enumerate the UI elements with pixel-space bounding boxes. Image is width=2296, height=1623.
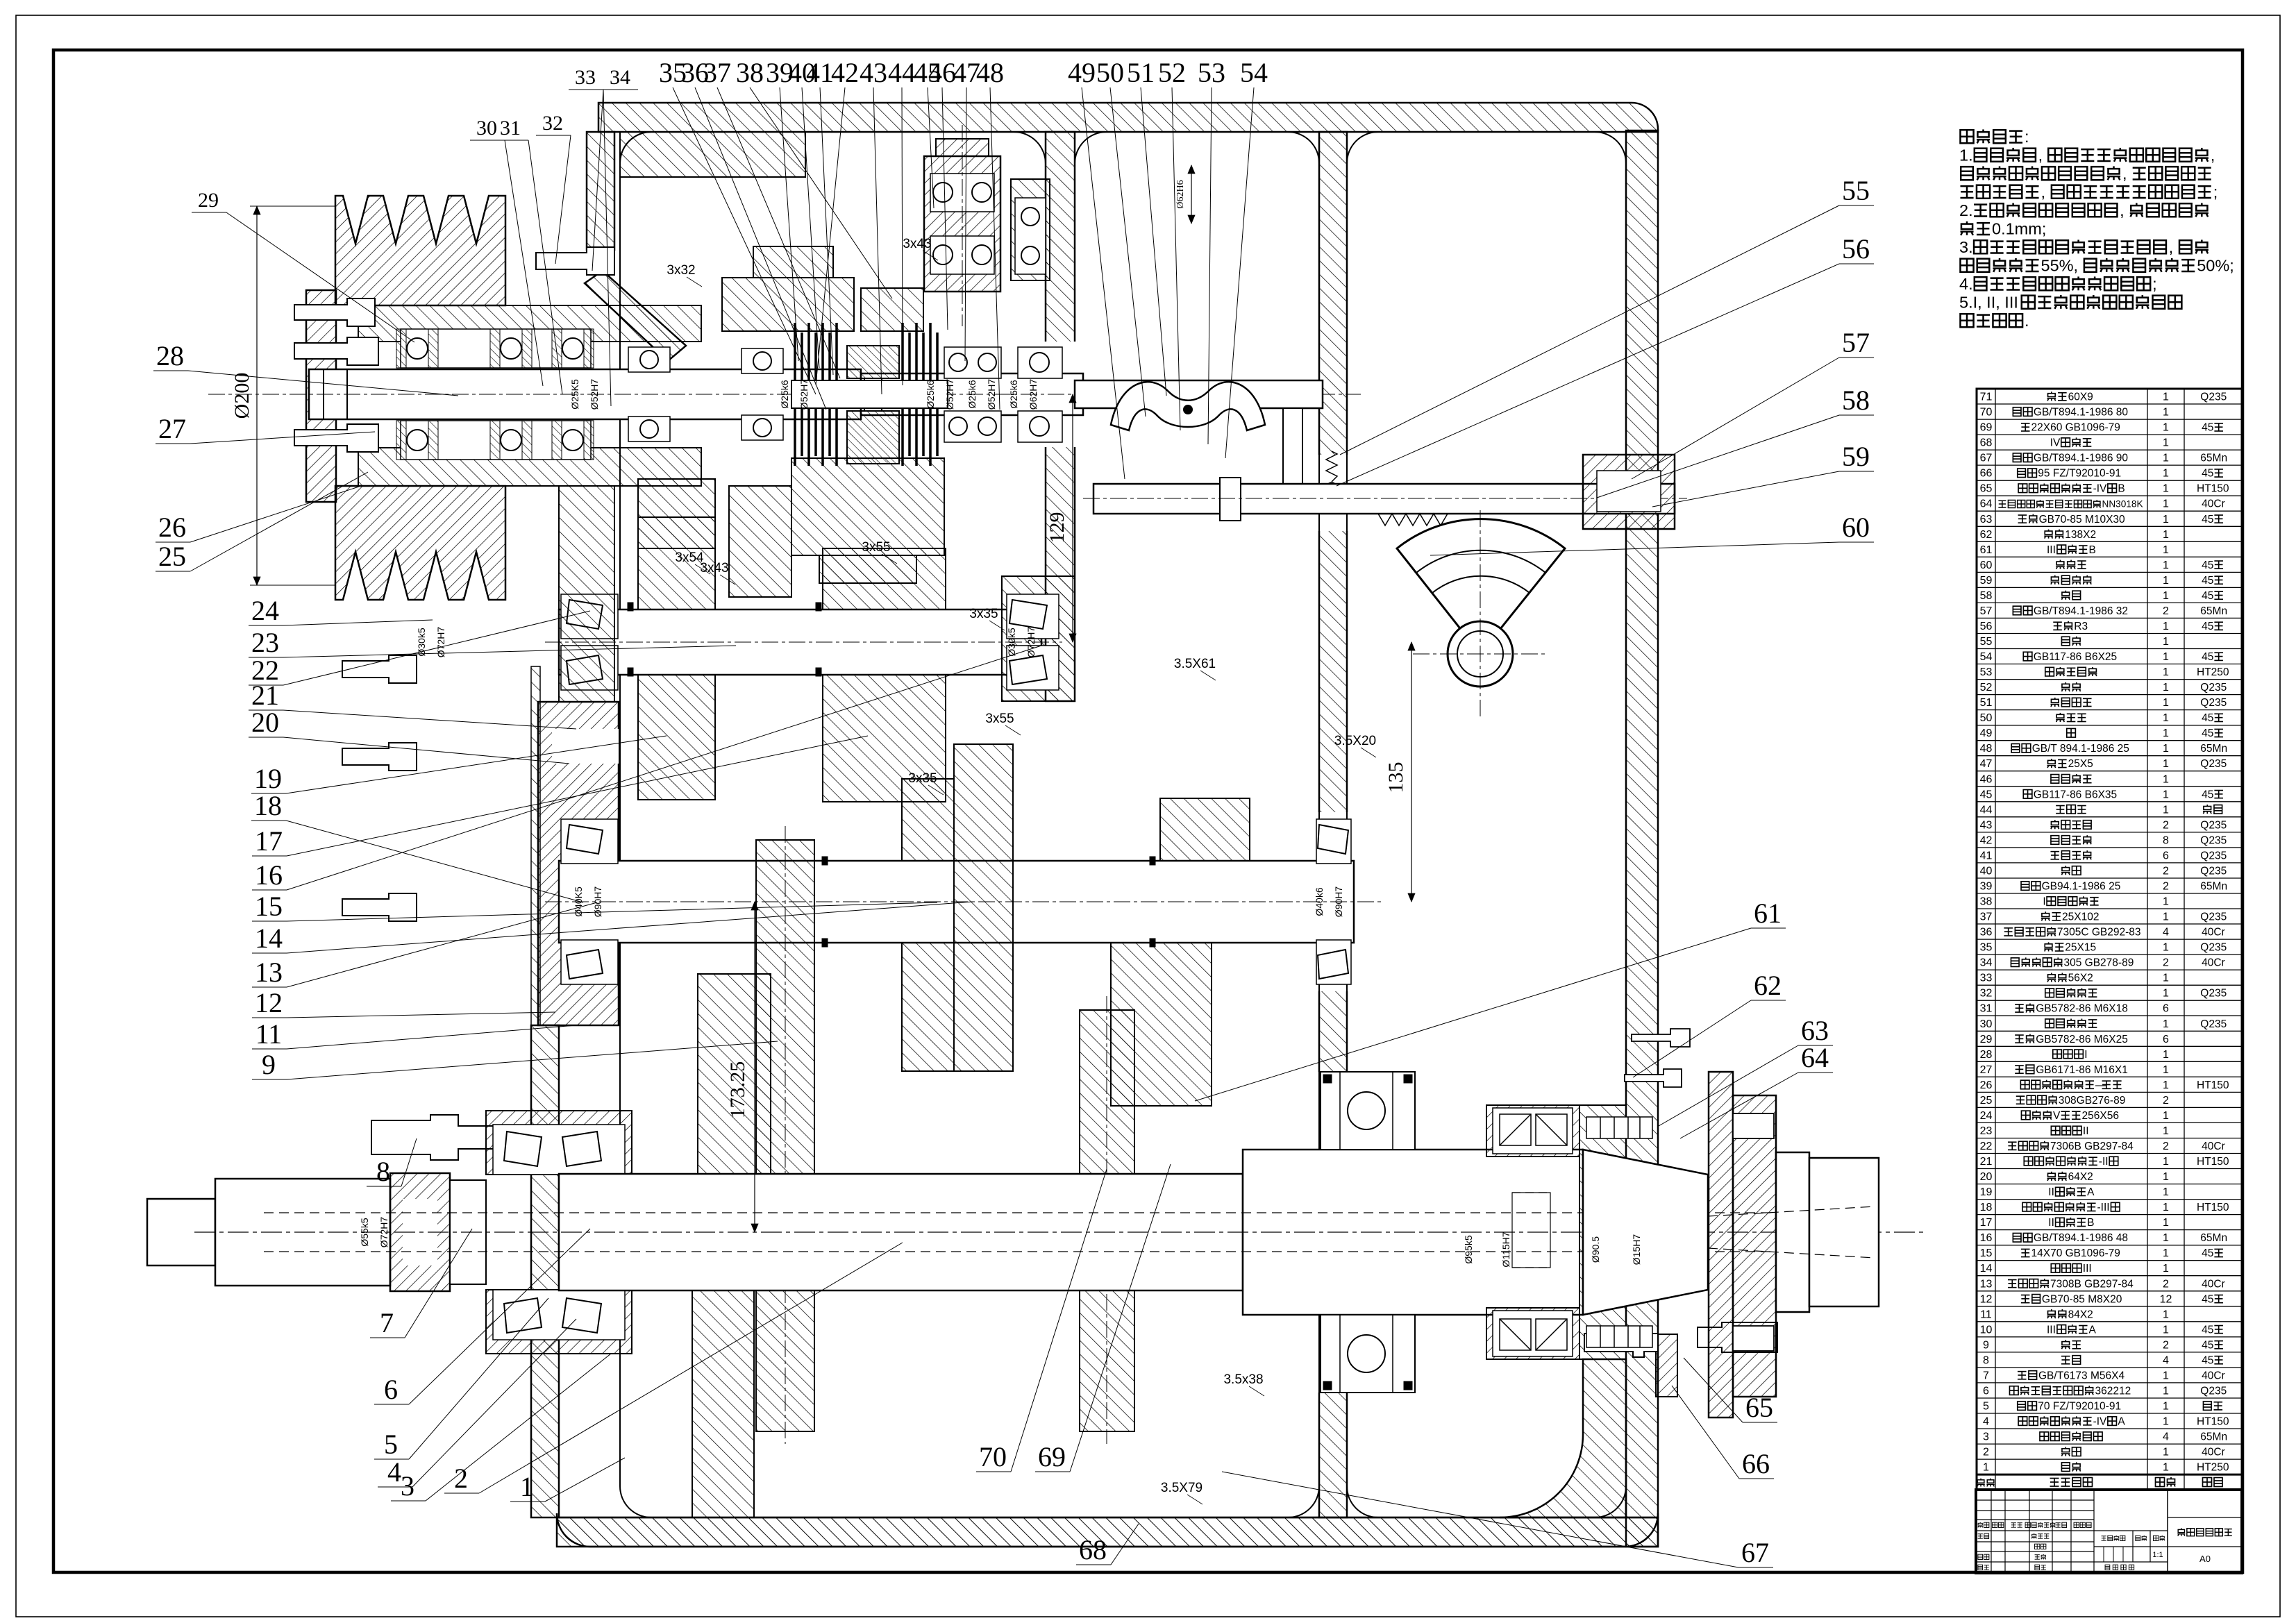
rack centerline — [1083, 498, 1687, 499]
svg-text:53: 53 — [1198, 57, 1225, 88]
table row 32 — [1977, 1000, 2242, 1001]
svg-text:II: II — [2083, 1125, 2089, 1137]
svg-text:1: 1 — [2163, 896, 2169, 908]
seal flange plate right of bearing block — [1656, 1334, 1677, 1397]
svg-text:1: 1 — [2163, 1171, 2169, 1183]
svg-text:47: 47 — [1980, 758, 1993, 770]
circlip ticks shaft III — [822, 857, 828, 865]
table row 39 — [1977, 893, 2242, 894]
svg-text:70: 70 — [979, 1441, 1007, 1472]
table row 63 — [1977, 525, 2242, 527]
svg-text:23: 23 — [251, 627, 279, 658]
bearing pair right of pulley — [628, 347, 670, 372]
svg-text:III: III — [2047, 544, 2056, 556]
svg-text:36: 36 — [1980, 927, 1993, 939]
table header row — [1977, 1479, 1984, 1487]
svg-text:84X2: 84X2 — [2068, 1309, 2093, 1320]
svg-text:;: ; — [2213, 183, 2218, 201]
svg-text:57: 57 — [1980, 605, 1993, 617]
ball bearing ball — [396, 329, 406, 368]
svg-text:2: 2 — [2163, 1339, 2169, 1351]
svg-text:31: 31 — [1980, 1003, 1993, 1015]
svg-text:3x32: 3x32 — [667, 263, 695, 278]
rack bar 58 — [1093, 484, 1675, 514]
svg-text:33: 33 — [575, 66, 596, 89]
svg-text:4: 4 — [2163, 927, 2169, 939]
svg-text:34: 34 — [610, 66, 630, 89]
dimension line — [754, 902, 755, 1232]
drawing title — [2177, 1528, 2185, 1536]
svg-text:7305C GB292-83: 7305C GB292-83 — [2057, 927, 2141, 939]
shaft III gear up — [902, 779, 954, 861]
svg-text:,: , — [2122, 165, 2127, 183]
svg-text:8: 8 — [1983, 1354, 1989, 1366]
svg-text:65Mn: 65Mn — [2200, 1431, 2227, 1443]
svg-text:43: 43 — [860, 57, 887, 88]
svg-text:3.5X20: 3.5X20 — [1334, 734, 1376, 748]
svg-text:65Mn: 65Mn — [2200, 743, 2227, 755]
spindle bore hidden lines — [264, 1212, 1868, 1213]
svg-text:55: 55 — [1842, 175, 1870, 206]
svg-text:39: 39 — [1980, 881, 1993, 893]
rack end sleeve 59 — [1583, 455, 1675, 529]
table row 11 — [1977, 1321, 2242, 1322]
svg-text:1: 1 — [2163, 1064, 2169, 1076]
spindle taper section — [1583, 1150, 1708, 1315]
svg-text:1: 1 — [2163, 1018, 2169, 1030]
boss under top wall — [620, 132, 805, 177]
svg-text:52: 52 — [1158, 57, 1186, 88]
svg-text:1: 1 — [2163, 636, 2169, 648]
ball bearing ball — [552, 329, 562, 368]
table row 16 — [1977, 1245, 2242, 1246]
svg-text:HT150: HT150 — [2197, 1416, 2229, 1428]
svg-text:14X70 GB1096-79: 14X70 GB1096-79 — [2031, 1247, 2120, 1259]
technical requirements text — [1960, 130, 1973, 143]
svg-text:1: 1 — [2163, 728, 2169, 739]
svg-text:8: 8 — [376, 1156, 390, 1187]
table row 20 — [1977, 1184, 2242, 1185]
svg-text:Ø25k6: Ø25k6 — [925, 380, 936, 408]
svg-text:A0: A0 — [2199, 1554, 2211, 1564]
table row 10 — [1977, 1336, 2242, 1338]
svg-text:A: A — [2089, 1324, 2097, 1336]
svg-text:18: 18 — [254, 790, 282, 821]
svg-text:,: , — [2120, 201, 2125, 219]
lever pivot pin — [1184, 405, 1192, 414]
svg-text:25: 25 — [158, 541, 186, 572]
table row 62 — [1977, 541, 2242, 542]
bearing ball — [933, 183, 953, 202]
table row 24 — [1977, 1122, 2242, 1123]
svg-text:29: 29 — [198, 189, 219, 212]
table row 66 — [1977, 480, 2242, 481]
flange cover plate II/III shafts — [538, 702, 619, 1025]
bearing ball — [972, 183, 991, 202]
svg-text:2: 2 — [2163, 881, 2169, 893]
svg-text:-IV: -IV — [2093, 483, 2107, 495]
svg-text:1: 1 — [2163, 529, 2169, 541]
svg-text:60: 60 — [1842, 512, 1870, 543]
table row 53 — [1977, 679, 2242, 680]
svg-text:GB94.1-1986 25: GB94.1-1986 25 — [2042, 881, 2121, 893]
pulley 24 bottom rim with grooves — [335, 486, 505, 600]
svg-text:30: 30 — [1980, 1018, 1993, 1030]
bolt 29 — [294, 298, 375, 326]
svg-text:III: III — [2047, 1324, 2056, 1336]
svg-text:1: 1 — [2163, 1324, 2169, 1336]
spindle main body — [559, 1174, 1243, 1290]
svg-text:V: V — [2053, 1110, 2061, 1122]
table row 5 — [1977, 1413, 2242, 1414]
svg-text:1: 1 — [2163, 498, 2169, 510]
svg-text:1: 1 — [520, 1471, 534, 1502]
svg-text:17: 17 — [255, 825, 283, 857]
svg-text:GB/T894.1-1986 80: GB/T894.1-1986 80 — [2034, 407, 2129, 419]
shaft III right gear up — [1160, 798, 1250, 861]
clutch center pin 51 area — [864, 378, 882, 411]
svg-text:HT150: HT150 — [2197, 1156, 2229, 1168]
svg-text:60X9: 60X9 — [2068, 392, 2093, 403]
table row 65 — [1977, 495, 2242, 496]
svg-text:27: 27 — [1980, 1064, 1993, 1076]
svg-text:1: 1 — [2163, 590, 2169, 602]
spindle big gear (back gear) tall — [756, 840, 814, 1431]
svg-text:GB117-86 B6X35: GB117-86 B6X35 — [2034, 789, 2117, 800]
svg-text:1: 1 — [2163, 422, 2169, 434]
svg-text:3x43: 3x43 — [700, 561, 728, 575]
shaft III left tapered bearing — [561, 819, 618, 864]
sector gear hub circles — [1448, 621, 1513, 687]
svg-text:59: 59 — [1980, 575, 1993, 587]
bolt 8 — [371, 1115, 508, 1160]
svg-text:1: 1 — [2163, 544, 2169, 556]
dimension line — [1191, 165, 1192, 224]
table row 26 — [1977, 1091, 2242, 1093]
svg-text:45: 45 — [2202, 575, 2213, 587]
svg-text:2: 2 — [2163, 819, 2169, 831]
svg-text:29: 29 — [1980, 1034, 1993, 1045]
bearing ball — [933, 245, 953, 264]
control shaft 49 — [1075, 380, 1323, 408]
table row 6 — [1977, 1397, 2242, 1399]
svg-text:3: 3 — [1983, 1431, 1989, 1443]
table row 52 — [1977, 694, 2242, 696]
svg-text:42: 42 — [831, 57, 859, 88]
svg-text:65Mn: 65Mn — [2200, 453, 2227, 464]
svg-text:40Cr: 40Cr — [2202, 1370, 2225, 1381]
housing left wall lower — [531, 1025, 559, 1517]
svg-text:Q235: Q235 — [2200, 1386, 2227, 1397]
svg-text:60: 60 — [1980, 560, 1993, 571]
svg-text:3x35: 3x35 — [908, 771, 937, 786]
bottom right bracket wall — [1500, 1359, 1626, 1517]
W2 spindle ball bearing bottom — [1321, 1315, 1415, 1393]
svg-text:65Mn: 65Mn — [2200, 1232, 2227, 1244]
svg-text:49: 49 — [1068, 57, 1096, 88]
svg-text:Ø40k6: Ø40k6 — [1314, 887, 1325, 916]
svg-text:65Mn: 65Mn — [2200, 605, 2227, 617]
svg-text:54: 54 — [1980, 651, 1993, 663]
svg-text:56X2: 56X2 — [2068, 973, 2093, 984]
svg-text:45: 45 — [2202, 728, 2213, 739]
shaft III centerline — [545, 901, 1382, 902]
table row 46 — [1977, 786, 2242, 787]
svg-text:Q235: Q235 — [2200, 392, 2227, 403]
svg-text:Ø52H7: Ø52H7 — [986, 379, 997, 410]
table row 15 — [1977, 1260, 2242, 1261]
svg-text:32: 32 — [542, 112, 563, 135]
svg-text:41: 41 — [806, 57, 834, 88]
table row 29 — [1977, 1045, 2242, 1047]
svg-text:Ø62H7: Ø62H7 — [1028, 379, 1039, 410]
svg-text:45: 45 — [2202, 422, 2213, 434]
svg-text:1: 1 — [2163, 651, 2169, 663]
svg-text:31: 31 — [500, 117, 521, 140]
table row 25 — [1977, 1107, 2242, 1108]
bolts on flange — [342, 655, 417, 683]
svg-text:135: 135 — [1384, 762, 1407, 793]
vertical link 52 — [1283, 408, 1302, 486]
svg-text:1: 1 — [2163, 1416, 2169, 1428]
svg-text:II: II — [2048, 1217, 2054, 1229]
svg-text:Q235: Q235 — [2200, 866, 2227, 877]
svg-text:HT150: HT150 — [2197, 483, 2229, 495]
housing boss left between bell and flange — [559, 486, 614, 702]
svg-text:1: 1 — [2163, 1386, 2169, 1397]
svg-text:61: 61 — [1754, 898, 1782, 929]
svg-text:58: 58 — [1842, 385, 1870, 416]
svg-text:27: 27 — [158, 413, 186, 444]
svg-text:16: 16 — [1980, 1232, 1993, 1244]
bearings right of clutch — [944, 347, 1001, 378]
svg-text:2: 2 — [2163, 605, 2169, 617]
gear 3x43 — [861, 288, 923, 331]
svg-text:Ø95k5: Ø95k5 — [1463, 1235, 1474, 1263]
svg-text:II: II — [2048, 1186, 2054, 1198]
svg-text:1: 1 — [2163, 392, 2169, 403]
nose flange hub — [1733, 1095, 1776, 1397]
svg-text:64: 64 — [1801, 1042, 1829, 1073]
svg-text:1: 1 — [2163, 697, 2169, 709]
table row 69 — [1977, 434, 2242, 435]
svg-text:45: 45 — [2202, 514, 2213, 525]
svg-text:Ø72H7: Ø72H7 — [1025, 627, 1037, 658]
V-belt pulley 24 top rim with grooves — [335, 196, 505, 305]
svg-text:305 GB278-89: 305 GB278-89 — [2064, 957, 2134, 969]
svg-text:B: B — [2087, 1217, 2094, 1229]
svg-text:1: 1 — [2163, 407, 2169, 419]
svg-text:44: 44 — [888, 57, 916, 88]
svg-text:3x35: 3x35 — [969, 607, 998, 621]
table row 44 — [1977, 816, 2242, 818]
spindle left end steps — [147, 1199, 215, 1265]
table row 38 — [1977, 908, 2242, 909]
svg-text:Ø52H7: Ø52H7 — [589, 379, 600, 410]
mid support rib lower — [692, 1290, 754, 1517]
spindle second tall gear — [1080, 1010, 1134, 1431]
table row 17 — [1977, 1229, 2242, 1231]
svg-text:HT250: HT250 — [2197, 1462, 2229, 1474]
svg-text:45: 45 — [2202, 1247, 2213, 1259]
svg-text:45: 45 — [2202, 651, 2213, 663]
svg-text:Ø30k5: Ø30k5 — [1006, 628, 1017, 656]
svg-text:1: 1 — [2163, 437, 2169, 449]
svg-text:50: 50 — [1096, 57, 1124, 88]
svg-text:GB117-86 B6X25: GB117-86 B6X25 — [2034, 651, 2117, 663]
svg-text:2: 2 — [2163, 1278, 2169, 1290]
svg-text:362212: 362212 — [2095, 1386, 2131, 1397]
bearing ball — [972, 245, 991, 264]
svg-text:1: 1 — [2163, 743, 2169, 755]
svg-text:1: 1 — [2163, 453, 2169, 464]
svg-text:22X60 GB1096-79: 22X60 GB1096-79 — [2031, 422, 2120, 434]
table row 21 — [1977, 1168, 2242, 1170]
svg-text:1: 1 — [2163, 1462, 2169, 1474]
svg-text:62: 62 — [1754, 970, 1782, 1001]
svg-text:65: 65 — [1980, 483, 1993, 495]
svg-text:21: 21 — [1980, 1156, 1993, 1168]
keyway hidden rect — [1512, 1193, 1550, 1268]
table row 22 — [1977, 1153, 2242, 1154]
table outer border — [1977, 389, 2242, 1490]
svg-text:14: 14 — [255, 923, 283, 954]
svg-text:9: 9 — [1983, 1339, 1989, 1351]
svg-text:IV: IV — [2050, 437, 2061, 449]
svg-text:2: 2 — [2163, 957, 2169, 969]
svg-text:Q235: Q235 — [2200, 819, 2227, 831]
bolt through lower bearing block — [1584, 1328, 1658, 1357]
svg-text:Ø25k6: Ø25k6 — [779, 380, 790, 408]
svg-text:1.: 1. — [1959, 146, 1973, 165]
table row 54 — [1977, 664, 2242, 665]
left dbl-row bearing windows — [493, 1125, 625, 1175]
nose flange plate 65 — [1709, 1072, 1733, 1418]
shaft II right bearing boss — [1002, 576, 1075, 701]
housing box top wall — [598, 103, 1658, 132]
svg-text:Ø90H7: Ø90H7 — [1333, 886, 1344, 918]
bolts 63/64 — [1632, 1029, 1690, 1047]
svg-text:1: 1 — [2163, 682, 2169, 693]
svg-text:1: 1 — [1983, 1462, 1989, 1474]
svg-text:20: 20 — [1980, 1171, 1993, 1183]
svg-text:2: 2 — [2163, 866, 2169, 877]
svg-text:40Cr: 40Cr — [2202, 1278, 2225, 1290]
svg-text:1: 1 — [2163, 1049, 2169, 1061]
gears below shaft I left 3x54 — [638, 479, 715, 548]
bearing block housing 45-48 — [924, 156, 1000, 292]
svg-text:1: 1 — [2163, 804, 2169, 816]
svg-text:64: 64 — [1980, 498, 1993, 510]
svg-text:3.5x38: 3.5x38 — [1223, 1372, 1263, 1387]
svg-text:22: 22 — [1980, 1141, 1993, 1152]
table row 37 — [1977, 923, 2242, 925]
svg-text:7: 7 — [380, 1307, 394, 1338]
svg-text:56: 56 — [1980, 621, 1993, 632]
table row 59 — [1977, 587, 2242, 588]
svg-text:45: 45 — [2202, 1354, 2213, 1366]
svg-text:12: 12 — [255, 987, 283, 1018]
gear mass below shaft I mid — [729, 486, 791, 597]
svg-text:1: 1 — [2163, 1232, 2169, 1244]
svg-text:Q235: Q235 — [2200, 758, 2227, 770]
table row 13 — [1977, 1290, 2242, 1292]
dimension line — [256, 206, 258, 585]
table row 57 — [1977, 617, 2242, 619]
detent spring 55/56 — [1326, 451, 1337, 482]
svg-text:129: 129 — [1046, 512, 1069, 544]
svg-text:6: 6 — [2163, 850, 2169, 861]
svg-text:57: 57 — [1842, 327, 1870, 358]
svg-text:14: 14 — [1980, 1263, 1993, 1275]
table row 2 — [1977, 1458, 2242, 1460]
svg-text:,: , — [2169, 238, 2174, 256]
svg-text:68: 68 — [1980, 437, 1993, 449]
svg-text:41: 41 — [1980, 850, 1993, 861]
table row 67 — [1977, 464, 2242, 466]
svg-text:-IV: -IV — [2093, 1416, 2107, 1428]
svg-text:56: 56 — [1842, 233, 1870, 264]
table row 45 — [1977, 801, 2242, 802]
chamber corner arcs at W1 — [1014, 132, 1046, 292]
table row 27 — [1977, 1076, 2242, 1077]
housing right wall — [1626, 131, 1658, 1547]
table row 34 — [1977, 969, 2242, 970]
table row 7 — [1977, 1382, 2242, 1384]
svg-text:NN3018K: NN3018K — [2102, 499, 2143, 510]
table row 61 — [1977, 556, 2242, 557]
detent ball — [1327, 482, 1336, 492]
svg-text:50: 50 — [1980, 712, 1993, 724]
svg-text:45: 45 — [2202, 1324, 2213, 1336]
svg-text:1: 1 — [2163, 483, 2169, 495]
svg-text:42: 42 — [1980, 834, 1993, 846]
svg-text:1: 1 — [2163, 621, 2169, 632]
svg-text:Ø30k5: Ø30k5 — [416, 628, 427, 656]
bolt 30 lower — [294, 424, 378, 452]
yuanbao lever 51 — [1111, 382, 1265, 430]
table row 51 — [1977, 709, 2242, 711]
svg-text:A: A — [2087, 1186, 2095, 1198]
clutch white core over shaft — [791, 380, 948, 408]
bolt 62 upper — [1625, 1069, 1682, 1087]
svg-text:70: 70 — [1980, 407, 1993, 419]
svg-text:13: 13 — [1980, 1278, 1993, 1290]
svg-text:Q235: Q235 — [2200, 988, 2227, 1000]
svg-text:64X2: 64X2 — [2068, 1171, 2093, 1183]
svg-text:1: 1 — [2163, 789, 2169, 800]
svg-text:45: 45 — [2202, 1339, 2213, 1351]
svg-text:3.: 3. — [1959, 238, 1973, 256]
svg-text:67: 67 — [1980, 453, 1993, 464]
friction clutch pack group 1 (discs 41/42) — [794, 323, 796, 380]
hex bolt right on flange — [1698, 1322, 1777, 1352]
svg-text:1: 1 — [2163, 1110, 2169, 1122]
svg-text:308GB276-89: 308GB276-89 — [2059, 1095, 2126, 1107]
svg-text:Ø200: Ø200 — [231, 373, 253, 419]
svg-text:B: B — [2089, 544, 2096, 556]
table row 28 — [1977, 1061, 2242, 1062]
right angular bearings — [1493, 1108, 1573, 1154]
svg-text:1: 1 — [2163, 1247, 2169, 1259]
svg-text:95 FZ/T92010-91: 95 FZ/T92010-91 — [2038, 468, 2121, 480]
sector gear 60 — [1397, 519, 1565, 654]
svg-text:55: 55 — [1980, 636, 1993, 648]
table row 49 — [1977, 740, 2242, 741]
table row 12 — [1977, 1306, 2242, 1307]
svg-text:10: 10 — [1980, 1324, 1993, 1336]
svg-text:45: 45 — [2202, 621, 2213, 632]
